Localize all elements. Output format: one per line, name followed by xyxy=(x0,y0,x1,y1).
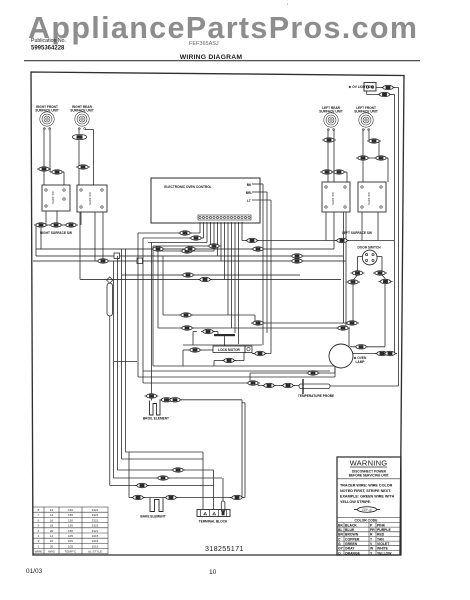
svg-text:ELECTRONIC OVEN CONTROL: ELECTRONIC OVEN CONTROL xyxy=(164,185,211,189)
svg-text:3321: 3321 xyxy=(92,513,99,517)
svg-text:14: 14 xyxy=(50,513,54,517)
svg-text:SURF SW: SURF SW xyxy=(331,192,335,205)
svg-text:BLACK: BLACK xyxy=(345,523,357,527)
svg-text:3321: 3321 xyxy=(92,529,99,533)
svg-text:TRACER WIRE: WIRE COLOR: TRACER WIRE: WIRE COLOR xyxy=(340,484,393,488)
svg-text:YELLOW STRIPE.: YELLOW STRIPE. xyxy=(340,500,371,504)
svg-text:TAN: TAN xyxy=(377,537,384,541)
svg-text:G: G xyxy=(338,542,341,546)
svg-text:SURF SW: SURF SW xyxy=(88,192,92,205)
svg-text:5995364228: 5995364228 xyxy=(31,46,65,52)
svg-text:PR: PR xyxy=(370,528,375,532)
svg-text:GRAY: GRAY xyxy=(345,547,355,551)
svg-text:14: 14 xyxy=(50,534,54,538)
svg-text:TERMINAL BLOCK: TERMINAL BLOCK xyxy=(199,520,228,524)
svg-text:': ' xyxy=(287,4,288,10)
svg-text:WHITE: WHITE xyxy=(377,547,389,551)
svg-text:SURF SW: SURF SW xyxy=(367,192,371,205)
svg-text:LEFT SURFACE SW: LEFT SURFACE SW xyxy=(342,231,372,235)
svg-text:318255171: 318255171 xyxy=(205,544,244,553)
svg-text:DOOR SWITCH: DOOR SWITCH xyxy=(357,246,381,250)
svg-text:✱ OV LIGHT SW: ✱ OV LIGHT SW xyxy=(349,85,374,89)
svg-text:TEMPERATURE PROBE: TEMPERATURE PROBE xyxy=(298,394,334,398)
svg-text:LAMP: LAMP xyxy=(355,360,365,364)
svg-text:12: 12 xyxy=(50,508,54,512)
svg-text:BLUE: BLUE xyxy=(345,528,355,532)
svg-text:BAKE ELEMENT: BAKE ELEMENT xyxy=(140,515,165,519)
svg-text:BRL: BRL xyxy=(246,191,253,195)
svg-text:BR: BR xyxy=(338,533,343,537)
svg-text:Publication No.: Publication No. xyxy=(31,38,66,44)
svg-text:BROWN: BROWN xyxy=(345,533,359,537)
svg-text:BROIL ELEMENT: BROIL ELEMENT xyxy=(143,417,169,421)
svg-text:AppliancePartsPros.com: AppliancePartsPros.com xyxy=(28,11,417,45)
svg-text:GY: GY xyxy=(338,547,344,551)
svg-text:UL STYLE: UL STYLE xyxy=(88,550,102,554)
svg-text:150: 150 xyxy=(68,518,73,522)
svg-text:FEF365ASJ: FEF365ASJ xyxy=(189,41,219,47)
svg-text:TEMP°C: TEMP°C xyxy=(65,550,78,554)
svg-text:NOTED FIRST, STRIPE NEXT.: NOTED FIRST, STRIPE NEXT. xyxy=(340,489,391,493)
svg-text:BL: BL xyxy=(338,528,343,532)
svg-text:PINK: PINK xyxy=(377,523,386,527)
svg-text:BK: BK xyxy=(338,523,343,527)
svg-text:AWG: AWG xyxy=(48,550,56,554)
svg-text:G/Y-◎: G/Y-◎ xyxy=(362,508,372,512)
svg-text:SURFACE UNIT: SURFACE UNIT xyxy=(70,109,94,113)
svg-text:GREEN: GREEN xyxy=(345,542,358,546)
svg-text:SURFACE UNIT: SURFACE UNIT xyxy=(354,110,378,114)
svg-text:SURFACE UNIT: SURFACE UNIT xyxy=(35,109,59,113)
svg-text:1015: 1015 xyxy=(92,534,99,538)
svg-text:VIOLET: VIOLET xyxy=(377,542,390,546)
svg-text:105: 105 xyxy=(68,534,73,538)
svg-text:105: 105 xyxy=(68,544,73,548)
svg-text:LT: LT xyxy=(247,199,251,203)
svg-text:20: 20 xyxy=(50,529,54,533)
svg-text:WIRE: WIRE xyxy=(35,550,43,554)
svg-text:EXAMPLE: GREEN WIRE WITH: EXAMPLE: GREEN WIRE WITH xyxy=(340,495,395,499)
svg-text:150: 150 xyxy=(68,513,73,517)
svg-text:SURF SW: SURF SW xyxy=(51,191,55,204)
svg-text:BEFORE SERVICING UNIT.: BEFORE SERVICING UNIT. xyxy=(349,474,390,478)
svg-text:PURPLE: PURPLE xyxy=(377,528,391,532)
svg-text:ORANGE: ORANGE xyxy=(345,551,361,555)
svg-text:RIGHT SURFACE SW: RIGHT SURFACE SW xyxy=(40,231,72,235)
svg-text:150: 150 xyxy=(68,524,73,528)
svg-text:1015: 1015 xyxy=(92,539,99,543)
svg-text:3321: 3321 xyxy=(92,524,99,528)
svg-text:150: 150 xyxy=(68,529,73,533)
svg-text:O: O xyxy=(338,551,341,555)
svg-text:20: 20 xyxy=(50,544,54,548)
svg-text:WIRING DIAGRAM: WIRING DIAGRAM xyxy=(180,54,243,61)
svg-text:RED: RED xyxy=(377,533,385,537)
svg-text:1015: 1015 xyxy=(92,544,99,548)
svg-text:16: 16 xyxy=(50,518,54,522)
svg-text:01/03: 01/03 xyxy=(26,568,43,575)
svg-text:16: 16 xyxy=(50,539,54,543)
svg-text:105: 105 xyxy=(68,539,73,543)
svg-text:3321: 3321 xyxy=(92,508,99,512)
svg-text:BK: BK xyxy=(247,183,252,187)
svg-text:SURFACE UNIT: SURFACE UNIT xyxy=(319,110,343,114)
svg-text:LOCK MOTOR: LOCK MOTOR xyxy=(218,348,240,352)
svg-text:COPPER: COPPER xyxy=(345,537,360,541)
svg-text:COLOR CODE: COLOR CODE xyxy=(355,519,379,523)
svg-text:WARNING: WARNING xyxy=(350,459,388,468)
svg-text:150: 150 xyxy=(68,508,73,512)
svg-text:YELLOW: YELLOW xyxy=(377,551,392,555)
svg-text:10: 10 xyxy=(209,569,217,576)
svg-text:18: 18 xyxy=(50,524,54,528)
svg-text:3321: 3321 xyxy=(92,518,99,522)
